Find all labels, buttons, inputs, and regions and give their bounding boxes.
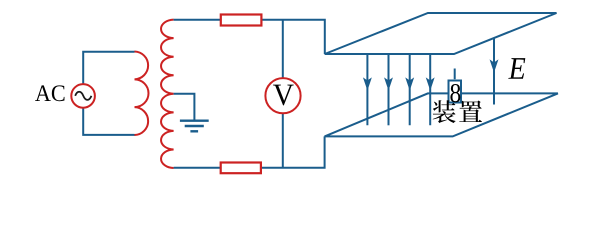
voltmeter V label — [273, 85, 294, 106]
AC source circle — [71, 84, 95, 108]
wire: secondary top to upper plate — [174, 20, 325, 54]
resistor R2 bottom — [221, 163, 261, 174]
label E — [508, 58, 525, 79]
device box — [449, 81, 462, 103]
AC source sine symbol — [75, 92, 91, 100]
wire: AC source loop top-left — [83, 52, 134, 85]
ground symbol — [180, 121, 209, 132]
voltmeter circle — [265, 78, 300, 113]
lower plate — [325, 93, 558, 136]
field line 2 — [385, 55, 392, 126]
field line 1 — [364, 55, 371, 126]
device lead — [454, 69, 456, 80]
transformer primary winding — [135, 52, 149, 136]
upper plate — [325, 13, 557, 54]
wire: AC source loop bottom-left — [83, 108, 134, 135]
field line E arrow — [491, 38, 498, 105]
wire: secondary bottom to lower plate — [174, 136, 325, 167]
field line 4 — [427, 55, 434, 126]
wire: center tap to ground — [174, 94, 195, 120]
resistor R1 top — [221, 15, 262, 26]
wire: voltmeter branch bottom — [282, 113, 284, 168]
wire: voltmeter branch top — [282, 20, 284, 78]
label AC — [35, 85, 51, 101]
label zhuangzhi char1 — [433, 100, 456, 123]
transformer secondary winding — [161, 20, 174, 168]
field line 3 — [406, 55, 413, 126]
label zhuangzhi char2 — [459, 100, 482, 122]
device label 8 — [450, 84, 460, 102]
